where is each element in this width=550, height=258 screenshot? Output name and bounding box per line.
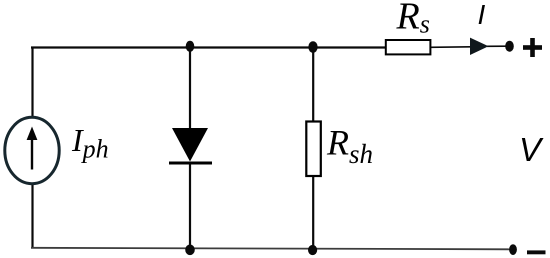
wire top rail left segment — [31, 46, 190, 48]
wire bottom rail — [31, 248, 511, 250]
current source Iph (circle) — [5, 117, 59, 183]
plus sign — [523, 45, 542, 50]
wire diode branch upper — [189, 48, 191, 130]
svg-text:V: V — [519, 131, 544, 168]
current source Iph arrow shaft — [31, 134, 33, 170]
wire Rs to current arrow — [430, 46, 471, 49]
wire Rsh branch lower — [312, 175, 314, 249]
wire top rail right segment to Rs — [313, 46, 386, 48]
resistor Rs (body) — [386, 40, 431, 54]
terminal dot plus — [505, 41, 514, 52]
current direction arrow I — [470, 38, 489, 55]
svg-text:I: I — [478, 0, 486, 30]
node A top junction at diode — [186, 41, 195, 52]
wire diode branch lower — [189, 162, 191, 249]
wire left rail lower — [31, 184, 33, 249]
wire arrow tip to plus terminal — [487, 45, 506, 47]
resistor Rsh (body) — [306, 122, 321, 177]
wire Rsh branch upper — [312, 48, 314, 123]
diode D cathode bar — [169, 162, 212, 165]
diode D (triangle) — [172, 128, 208, 162]
wire top rail middle segment — [190, 46, 313, 48]
wire left rail upper — [31, 47, 33, 118]
terminal dot minus — [509, 244, 517, 255]
node C bottom junction at diode — [185, 245, 195, 256]
current source Iph arrow head — [27, 127, 38, 141]
minus sign — [527, 250, 546, 254]
node B top junction at Rsh — [308, 41, 317, 53]
node D bottom junction at Rsh — [308, 245, 317, 255]
